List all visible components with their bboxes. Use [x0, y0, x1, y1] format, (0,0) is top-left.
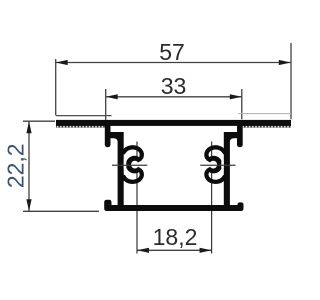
svg-text:57: 57 [159, 39, 185, 65]
dimension 22,2 bottom extension line [23, 210, 99, 212]
left boss bottom horn [124, 172, 142, 182]
dimension 22,2 top arrow [26, 121, 31, 133]
left boss screw hole [131, 161, 139, 169]
dimension 22,2 dim line [28, 121, 30, 211]
right boss top horn [206, 147, 224, 157]
top cover line left wing [56, 115, 112, 117]
left stub + jog + wall [105, 125, 124, 206]
right boss centerline (vertical dash-dot, 18,2 extension) [211, 142, 213, 254]
serration teeth right wing [243, 126, 291, 128]
bottom bar with feet [104, 200, 243, 211]
top flange bar [56, 120, 291, 126]
top cover line right wing [238, 113, 291, 115]
serration teeth left wing [56, 126, 105, 128]
dimension 33 dim line [106, 96, 242, 98]
dimension 22,2 top extension line [23, 120, 55, 122]
left boss centerline (vertical dash-dot, 18,2 extension) [136, 142, 138, 254]
left boss horizontal centerline [112, 164, 147, 166]
right boss horizontal centerline [200, 164, 235, 166]
dimension 33 right arrow [230, 94, 242, 99]
dimension 33 right extension line [241, 89, 243, 119]
left boss top horn [124, 147, 142, 157]
right boss ring [205, 156, 223, 174]
right boss bottom horn [206, 172, 224, 182]
right boss screw hole [209, 161, 217, 169]
dimension 57 right arrow [279, 60, 291, 65]
svg-text:18,2: 18,2 [153, 224, 198, 250]
dimension 18,2 dim line [137, 249, 212, 251]
dimension 22,2 bottom arrow [26, 199, 31, 211]
dimension 18,2 right arrow [200, 248, 212, 253]
dimension 57 right extension line [290, 43, 292, 119]
svg-text:33: 33 [161, 73, 187, 99]
dimension 57 dim line [56, 62, 291, 64]
left boss wall notch [124, 157, 127, 172]
right boss opening wedge [200, 157, 213, 173]
dimension 18,2 left arrow [137, 248, 149, 253]
left boss opening wedge [135, 157, 148, 173]
right stub + jog + wall (mirror) [224, 125, 243, 206]
dimension 57 left extension line [55, 59, 57, 115]
dimension 33 left arrow [106, 94, 118, 99]
dimension 57 left arrow [56, 60, 68, 65]
svg-text:22,2: 22,2 [2, 143, 28, 188]
dimension 33 left extension line [105, 89, 107, 120]
right boss wall notch [221, 157, 224, 172]
left boss ring [126, 156, 144, 174]
